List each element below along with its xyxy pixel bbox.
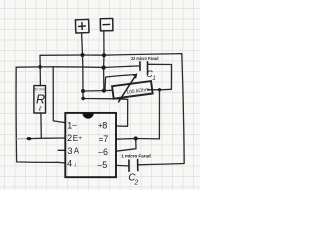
svg-text:3: 3 [68, 146, 73, 156]
svg-text:+: + [78, 136, 82, 142]
svg-text:–: – [72, 121, 77, 130]
svg-text:2: 2 [133, 180, 138, 187]
svg-text:E: E [73, 134, 78, 143]
svg-text:8: 8 [102, 121, 107, 131]
svg-text:1 micro Farad: 1 micro Farad [121, 153, 151, 158]
svg-text:6: 6 [103, 147, 108, 157]
svg-text:2: 2 [67, 133, 72, 143]
svg-text:1: 1 [152, 76, 155, 82]
svg-text:A: A [74, 147, 80, 156]
svg-text:5: 5 [102, 160, 107, 170]
svg-text:7: 7 [103, 134, 108, 144]
svg-text:50 Ohm: 50 Ohm [34, 87, 46, 92]
svg-text:R: R [36, 93, 45, 107]
svg-text:4: 4 [67, 159, 72, 169]
svg-text:22 micro Farad: 22 micro Farad [131, 56, 159, 61]
svg-text:↓: ↓ [73, 161, 77, 168]
